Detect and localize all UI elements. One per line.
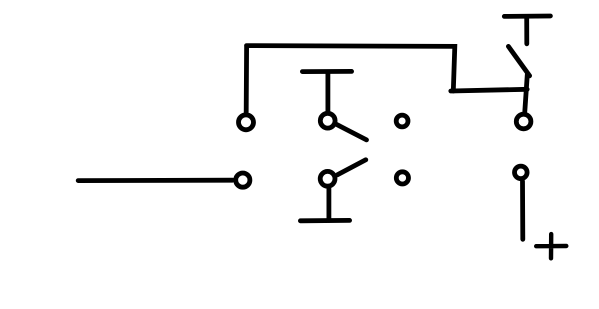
wire horizontal into S2 pole: [451, 89, 527, 91]
terminal node 3 (S1 common lower): [320, 171, 335, 186]
wire S2 pole drop: [525, 75, 528, 112]
battery plus sign: [536, 234, 566, 258]
terminal node 2 (S1 common upper): [320, 113, 335, 128]
wire battery lead: [520, 181, 525, 239]
wire vertical drop to terminal 1: [244, 47, 249, 112]
antenna symbol T (middle): [302, 69, 351, 74]
wire input lead left: [78, 178, 232, 183]
antenna symbol T (top right): [504, 14, 550, 19]
ground bar: [300, 218, 349, 223]
switch S2 blade: [508, 46, 529, 75]
terminal node 4 (S1 throw upper): [396, 115, 408, 127]
wire antenna stem right: [524, 19, 529, 44]
switch S1 lower blade: [338, 160, 366, 175]
terminal node 6 (input): [236, 173, 250, 187]
wire top bus from node A down to switch S2 pole: [247, 46, 455, 91]
terminal node 5 (S1 throw lower): [396, 172, 408, 184]
terminal node 1 (S1 pole upper): [239, 115, 254, 130]
terminal node 8 (battery +): [515, 166, 528, 179]
terminal node 7 (S2 output): [516, 114, 531, 129]
wire antenna stem: [325, 74, 330, 112]
switch S1 upper blade: [336, 124, 366, 140]
wire ground stem: [326, 189, 331, 221]
